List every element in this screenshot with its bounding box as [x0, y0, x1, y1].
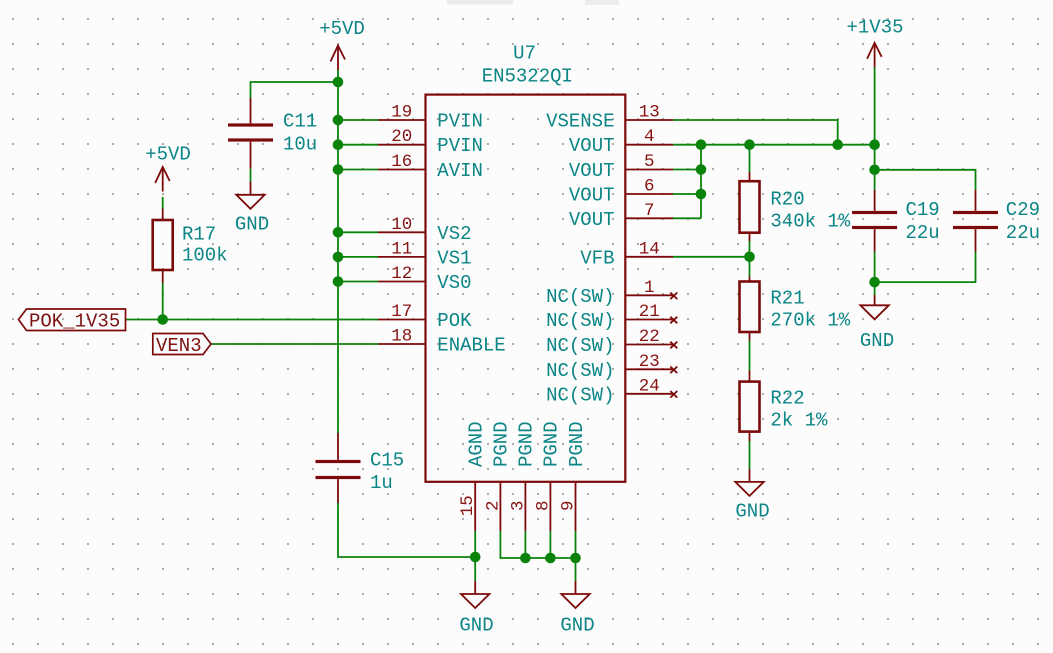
svg-text:8: 8	[533, 500, 553, 511]
svg-text:PVIN: PVIN	[437, 111, 483, 133]
svg-text:13: 13	[639, 103, 660, 123]
svg-text:VOUT: VOUT	[569, 185, 615, 207]
svg-text:6: 6	[644, 177, 655, 197]
svg-text:GND: GND	[860, 330, 894, 352]
svg-text:NC(SW): NC(SW)	[546, 384, 614, 406]
svg-text:PGND: PGND	[516, 421, 538, 467]
svg-text:18: 18	[391, 327, 412, 347]
svg-text:R21: R21	[770, 288, 804, 310]
svg-text:VSENSE: VSENSE	[546, 111, 614, 133]
svg-text:R20: R20	[770, 189, 804, 211]
svg-text:GND: GND	[459, 615, 493, 637]
svg-text:POK: POK	[437, 310, 472, 332]
svg-text:270k 1%: 270k 1%	[770, 310, 850, 332]
svg-text:NC(SW): NC(SW)	[546, 335, 614, 357]
svg-text:C29: C29	[1006, 199, 1040, 221]
svg-text:14: 14	[639, 239, 660, 259]
svg-text:U7: U7	[513, 43, 536, 65]
svg-text:2k 1%: 2k 1%	[770, 410, 828, 432]
svg-text:VS1: VS1	[437, 247, 471, 269]
svg-text:+5VD: +5VD	[145, 144, 191, 166]
svg-text:GND: GND	[235, 214, 269, 236]
svg-text:22u: 22u	[1006, 222, 1040, 244]
svg-text:11: 11	[391, 239, 412, 259]
svg-text:GND: GND	[735, 501, 769, 523]
svg-text:22: 22	[639, 327, 660, 347]
svg-text:5: 5	[644, 152, 655, 172]
svg-text:100k: 100k	[182, 245, 228, 267]
svg-text:340k 1%: 340k 1%	[770, 211, 850, 233]
svg-text:12: 12	[391, 264, 412, 284]
svg-text:PVIN: PVIN	[437, 135, 483, 157]
svg-text:1: 1	[644, 278, 655, 298]
svg-text:EN5322QI: EN5322QI	[482, 66, 573, 88]
svg-text:2: 2	[483, 500, 503, 511]
svg-text:15: 15	[458, 495, 478, 516]
svg-text:+1V35: +1V35	[846, 17, 903, 39]
svg-text:4: 4	[644, 127, 655, 147]
svg-text:VS0: VS0	[437, 272, 471, 294]
svg-text:22u: 22u	[906, 222, 940, 244]
svg-text:NC(SW): NC(SW)	[546, 310, 614, 332]
svg-text:+5VD: +5VD	[319, 18, 365, 40]
svg-text:R17: R17	[182, 224, 216, 246]
svg-text:21: 21	[639, 302, 660, 322]
svg-text:PGND: PGND	[566, 421, 588, 467]
svg-text:16: 16	[391, 152, 412, 172]
svg-text:1u: 1u	[370, 472, 393, 494]
svg-text:24: 24	[639, 376, 660, 396]
svg-text:ENABLE: ENABLE	[437, 335, 505, 357]
svg-text:VEN3: VEN3	[156, 335, 202, 357]
svg-text:GND: GND	[560, 615, 594, 637]
svg-text:C15: C15	[370, 450, 404, 472]
svg-text:POK_1V35: POK_1V35	[29, 311, 120, 333]
svg-text:PGND: PGND	[541, 421, 563, 467]
svg-text:AVIN: AVIN	[437, 160, 483, 182]
svg-text:NC(SW): NC(SW)	[546, 286, 614, 308]
svg-text:17: 17	[391, 302, 412, 322]
svg-text:9: 9	[559, 500, 579, 511]
svg-text:7: 7	[644, 201, 655, 221]
svg-text:VOUT: VOUT	[569, 209, 615, 231]
svg-text:19: 19	[391, 103, 412, 123]
svg-text:10: 10	[391, 215, 412, 235]
svg-text:10u: 10u	[283, 134, 317, 156]
svg-text:PGND: PGND	[491, 421, 513, 467]
svg-text:3: 3	[508, 500, 528, 511]
svg-text:AGND: AGND	[466, 421, 488, 467]
svg-text:VOUT: VOUT	[569, 160, 615, 182]
svg-text:VS2: VS2	[437, 223, 471, 245]
svg-text:C11: C11	[283, 111, 317, 133]
svg-text:23: 23	[639, 352, 660, 372]
svg-text:R22: R22	[770, 388, 804, 410]
svg-text:VOUT: VOUT	[569, 135, 615, 157]
svg-text:NC(SW): NC(SW)	[546, 360, 614, 382]
svg-text:C19: C19	[906, 199, 940, 221]
svg-text:VFB: VFB	[580, 247, 614, 269]
svg-text:20: 20	[391, 127, 412, 147]
